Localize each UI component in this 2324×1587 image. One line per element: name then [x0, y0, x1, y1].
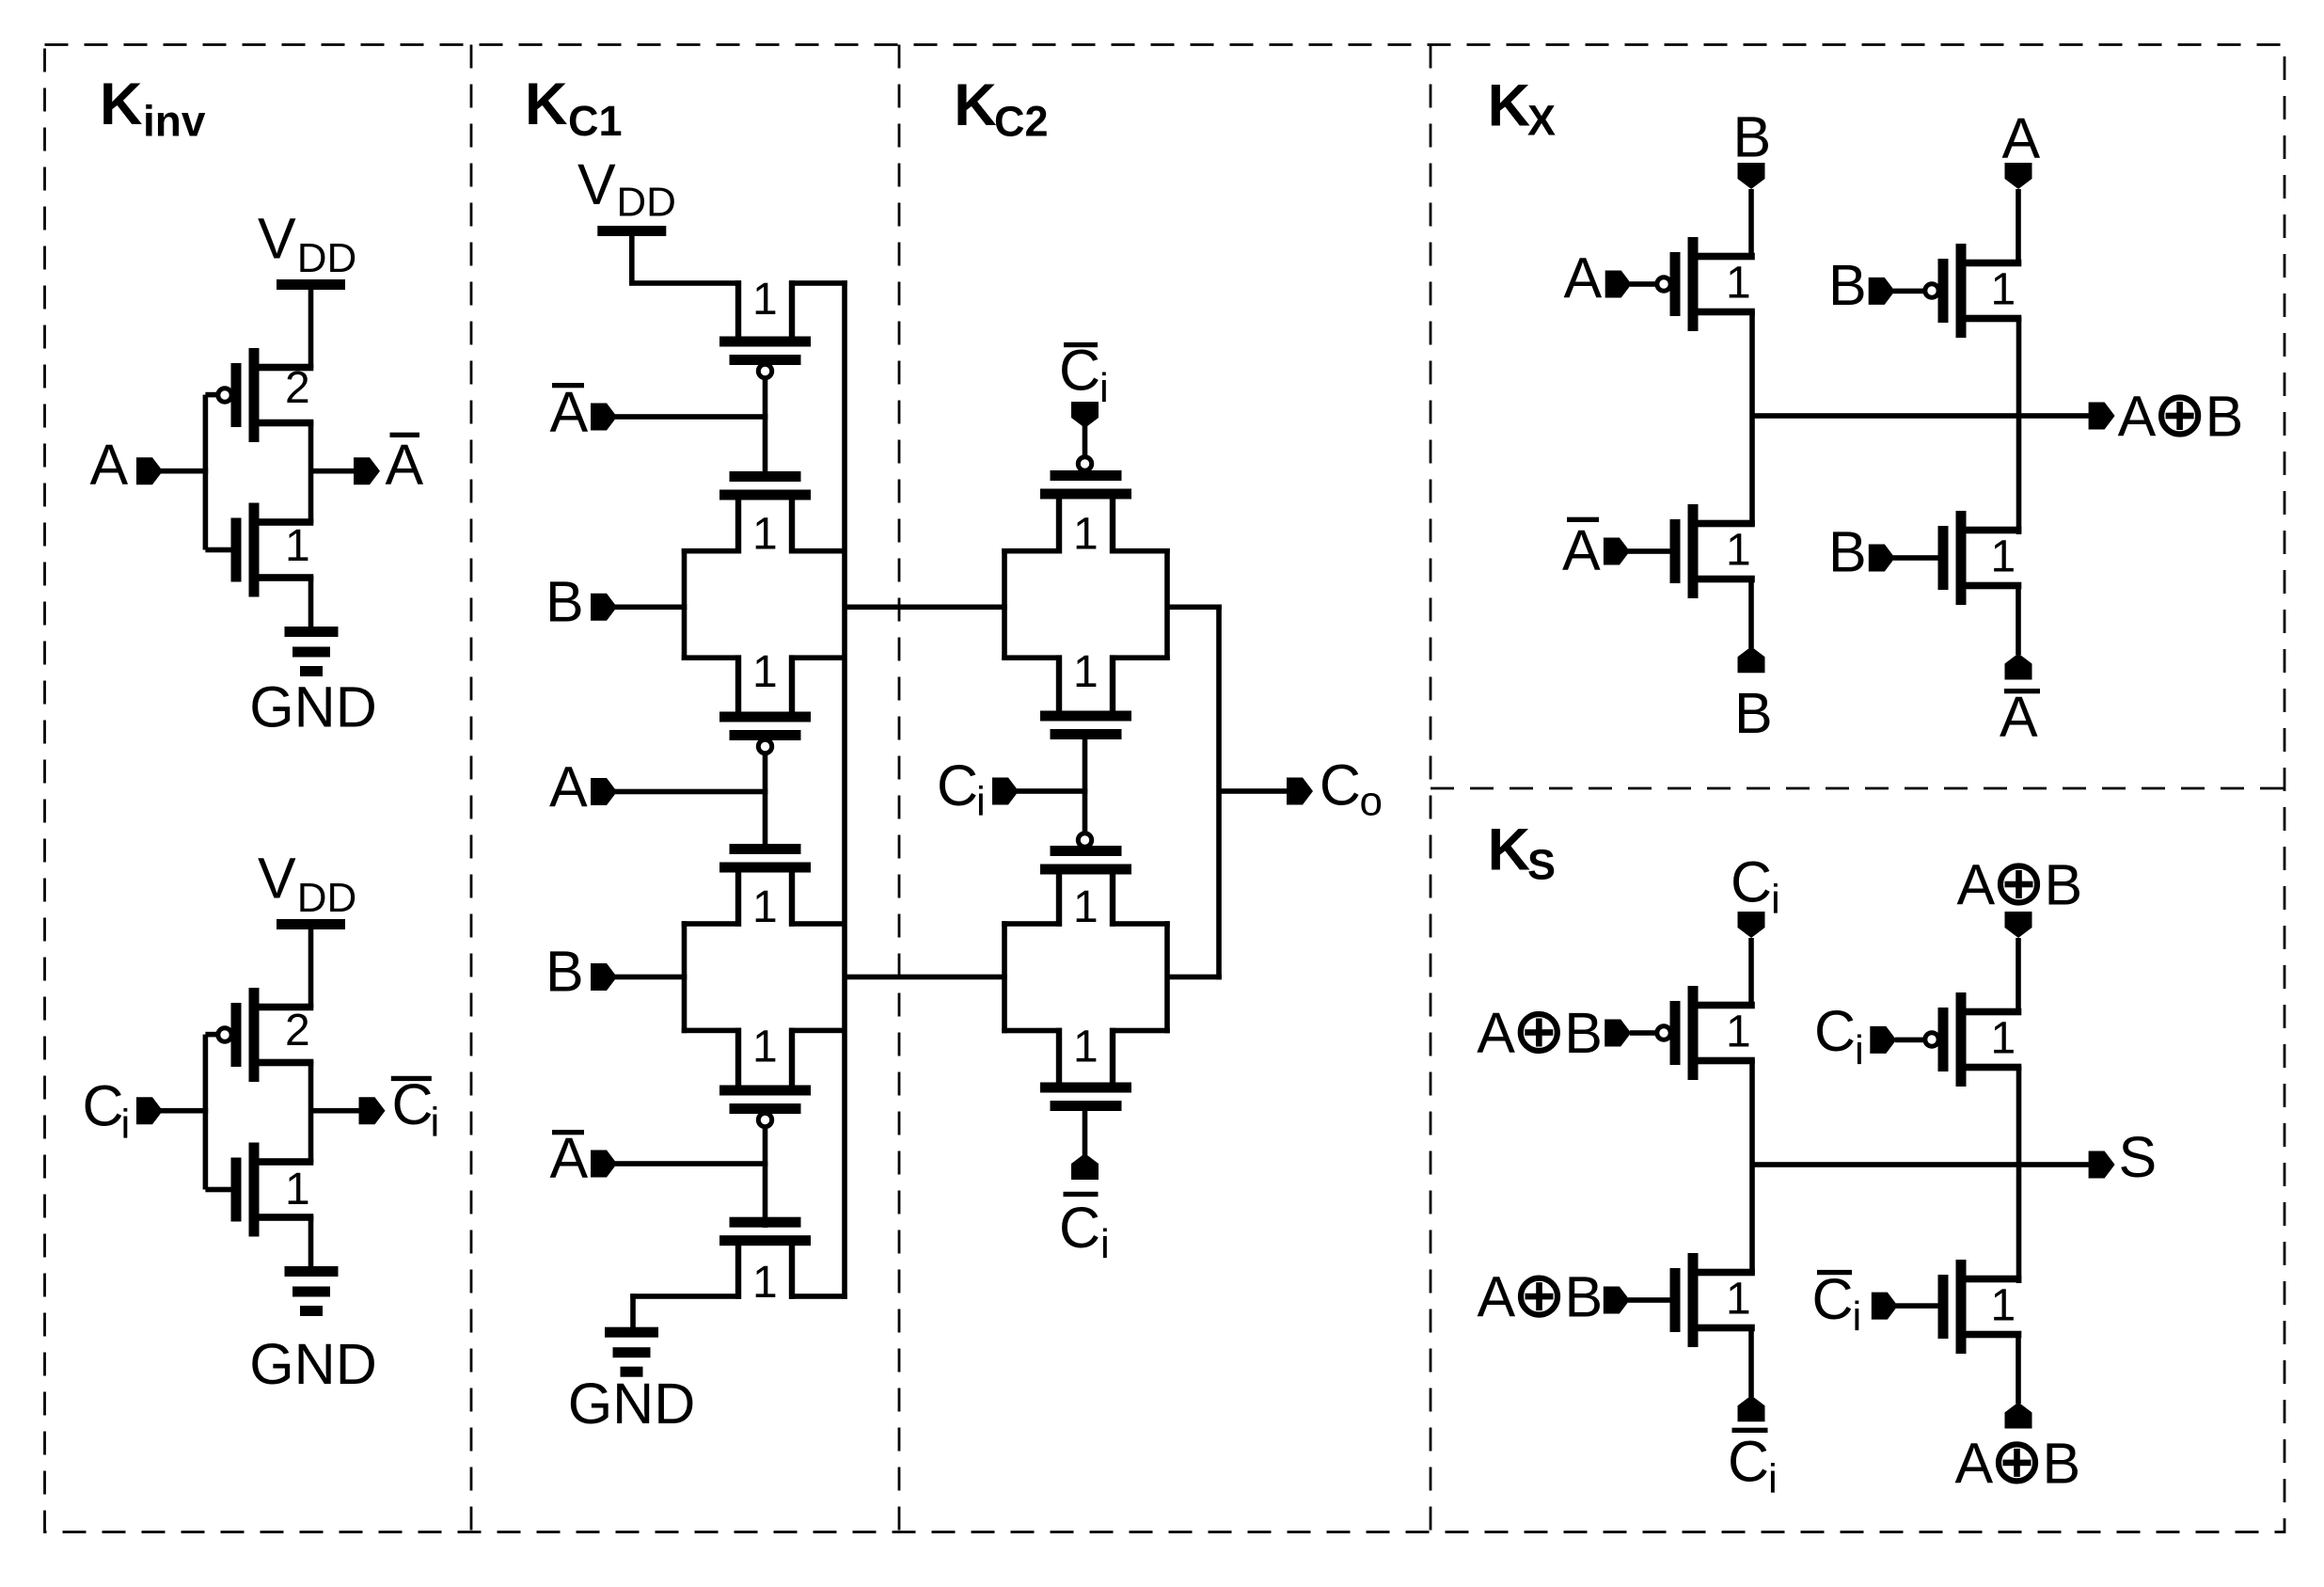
- svg-text:C: C: [1812, 1267, 1854, 1331]
- svg-text:B: B: [2045, 853, 2083, 917]
- svg-text:i: i: [1853, 1293, 1862, 1340]
- svg-text:1: 1: [285, 1165, 310, 1214]
- svg-text:A: A: [386, 433, 424, 497]
- wire rail to Co arrow: [1219, 788, 1288, 794]
- wire VDD rail to PMOS left lead: [629, 280, 741, 286]
- svg-text:V: V: [577, 152, 616, 216]
- wire gate Abar to bottom-left NMOS: [1628, 548, 1671, 554]
- wire pin to top PMOS gate bubble: [1083, 426, 1088, 458]
- label output Ci-bar: [391, 1072, 439, 1146]
- label 1 size (top-left): [1726, 1008, 1751, 1057]
- transistor 1 NMOS gate A (top of box 2): [719, 844, 811, 927]
- panel label K_S: [1488, 817, 1556, 889]
- svg-text:1: 1: [1073, 882, 1099, 932]
- label B (top-left pin): [1733, 105, 1772, 169]
- wire VDD to PMOS drain: [308, 928, 314, 1008]
- label 1 size (box1 bottom): [752, 647, 778, 697]
- svg-text:1: 1: [752, 510, 778, 560]
- svg-text:C: C: [937, 754, 978, 817]
- wire input B (lower) to box 2: [615, 975, 687, 980]
- wire gate A to top-left PMOS: [1630, 281, 1658, 287]
- label Ci-bar (bottom pin): [1059, 1192, 1110, 1267]
- wire top-left PMOS source down to output node: [1749, 1059, 1755, 1275]
- wire input to gate bus: [161, 1108, 208, 1114]
- svg-text:i: i: [1855, 1027, 1864, 1073]
- transistor 1 NMOS (bottom-right): [1938, 1260, 2022, 1354]
- svg-text:GND: GND: [568, 1372, 696, 1436]
- svg-text:K: K: [525, 71, 568, 137]
- svg-text:C: C: [1814, 999, 1856, 1063]
- wire input Abar to gate chain: [615, 414, 767, 420]
- svg-text:B: B: [545, 940, 584, 1004]
- pin arrow A-xor-B (top-right pin): [2005, 912, 2032, 938]
- label 1 size (bottom-right): [1991, 532, 2016, 582]
- wire gate AxorB to top-left PMOS: [1630, 1030, 1658, 1036]
- label 1 size (boxB top): [1073, 882, 1099, 932]
- wire top-right PMOS source down to bottom-right NMOS drain: [2016, 317, 2022, 534]
- svg-text:1: 1: [285, 521, 310, 571]
- label A xor B (top-left gate): [1477, 1001, 1603, 1065]
- wire input to gate bus: [161, 468, 208, 474]
- label 1 (NMOS size): [285, 521, 310, 571]
- svg-text:A: A: [1955, 1431, 1994, 1495]
- svg-text:A: A: [1477, 1001, 1515, 1065]
- panel label K_inv: [100, 71, 206, 146]
- pin arrow A (top-right pin): [2005, 163, 2032, 189]
- vertical rail of K_C1: [842, 280, 847, 1299]
- label A xor B (bottom-left gate): [1478, 1265, 1604, 1329]
- svg-text:K: K: [1488, 817, 1531, 883]
- svg-text:X: X: [1527, 96, 1556, 144]
- wire input Ci to gate chain: [1017, 788, 1087, 794]
- label 2 (PMOS size): [285, 363, 310, 413]
- svg-text:DD: DD: [297, 875, 357, 921]
- input arrow: [136, 1097, 163, 1124]
- pin arrow Ci-bar (top, pointing down): [1071, 402, 1099, 428]
- label Ci (top-left pin): [1731, 850, 1780, 923]
- label Co (carry output): [1320, 754, 1383, 825]
- wire PMOS source to output node: [308, 421, 314, 523]
- label 1 size of top PMOS: [752, 275, 778, 325]
- transistor 1 PMOS (top-right): [1925, 992, 2022, 1087]
- label 1 size (box1 top): [752, 510, 778, 560]
- panel label K_C2: [954, 72, 1048, 145]
- label 1 size (top-right): [1991, 265, 2016, 315]
- svg-text:i: i: [121, 1102, 131, 1148]
- svg-text:A: A: [1957, 853, 1996, 917]
- label 1 size (boxA bottom): [1073, 647, 1099, 697]
- label GND of K_C1: [568, 1372, 696, 1436]
- input arrow Ci (top-right gate): [1870, 1026, 1896, 1054]
- input arrow Ci: [992, 778, 1019, 805]
- pin arrow B (top-left pin): [1738, 163, 1765, 189]
- transistor 1 NMOS (bottom-left): [1670, 504, 1755, 598]
- label GND: [249, 1332, 377, 1396]
- input arrow B (upper): [591, 594, 617, 621]
- transistor 1 NMOS of inverter: [231, 503, 314, 597]
- svg-text:B: B: [1733, 105, 1772, 169]
- svg-text:i: i: [976, 779, 986, 825]
- transistor 1 PMOS (top-right): [1925, 244, 2022, 338]
- ground symbol GND of K_C1: [605, 1327, 658, 1377]
- svg-text:o: o: [1360, 779, 1383, 825]
- wire NMOS source to GND: [308, 1215, 314, 1266]
- transmission box 2 edges: [682, 921, 845, 1033]
- label Abar (bottom-right pin): [2000, 685, 2040, 749]
- wire bottom-left NMOS source to bottom pin: [1748, 576, 1754, 648]
- pin arrow A-xor-B (bottom-right pin, pointing up): [2005, 1403, 2032, 1429]
- svg-text:B: B: [2205, 385, 2244, 449]
- svg-text:C: C: [1728, 1429, 1769, 1493]
- svg-text:i: i: [431, 1100, 440, 1146]
- wire gate AxorB to bottom-left NMOS: [1628, 1297, 1671, 1303]
- svg-text:1: 1: [1991, 265, 2016, 315]
- input arrow Abar (upper): [591, 404, 617, 431]
- svg-text:1: 1: [752, 1258, 778, 1308]
- pin arrow Abar (bottom-right pin, pointing up): [2005, 654, 2032, 680]
- wire pin to top-left PMOS drain: [1748, 938, 1754, 1008]
- svg-text:1: 1: [752, 275, 778, 325]
- transistor 1 NMOS of inverter: [231, 1143, 314, 1237]
- svg-text:S: S: [2119, 1125, 2158, 1189]
- input arrow A (top-left gate): [1605, 271, 1632, 298]
- ground symbol GND: [285, 627, 339, 676]
- output node wire: [1752, 1162, 2089, 1167]
- input arrow A (middle): [591, 778, 617, 805]
- svg-text:inv: inv: [143, 97, 206, 146]
- wire bottom NMOS left lead to GND: [630, 1293, 741, 1328]
- panel divider between K_inv and K_C1: [470, 45, 473, 1532]
- transistor 1 PMOS (top-left): [1657, 237, 1755, 331]
- wire boxB NMOS gate down to bottom pin: [1083, 1108, 1088, 1155]
- wire bottom-right NMOS source to bottom pin: [2016, 1331, 2021, 1404]
- label 1 (NMOS size): [285, 1165, 310, 1214]
- transistor 1 NMOS gate Abar (bottom of K_C1): [719, 1217, 811, 1299]
- label Ci-bar (bottom-left pin): [1728, 1428, 1778, 1502]
- svg-text:1: 1: [1726, 259, 1751, 309]
- svg-text:1: 1: [1726, 526, 1751, 576]
- transistor 1 NMOS gate Ci (bottom of box A): [1040, 655, 1131, 739]
- output arrow: [2089, 1151, 2115, 1179]
- wire VDD to PMOS drain: [308, 288, 314, 368]
- transistor 1 PMOS (top-left): [1657, 986, 1755, 1080]
- wire box B output to rail: [1167, 975, 1222, 980]
- label A xor B (bottom-right pin): [1955, 1431, 2081, 1495]
- wire top-right PMOS source down to bottom-right NMOS drain: [2016, 1066, 2022, 1283]
- label 1 size (boxB bottom): [1073, 1022, 1099, 1071]
- svg-text:B: B: [1828, 520, 1867, 584]
- panel divider between K_C2 and K_X / K_S: [1430, 45, 1432, 1532]
- panel divider between K_C1 and K_C2: [898, 45, 901, 1532]
- svg-text:C: C: [83, 1074, 124, 1138]
- svg-text:A: A: [1562, 518, 1601, 582]
- svg-text:1: 1: [1726, 1275, 1751, 1325]
- input arrow B (top-right gate): [1869, 278, 1895, 305]
- label Abar (lower input): [550, 1126, 589, 1190]
- VDD supply symbol of K_C1: [577, 152, 676, 236]
- transistor 1 PMOS gate Abar (bottom of box 2): [719, 1028, 811, 1127]
- output arrow Co: [1287, 778, 1313, 805]
- svg-text:C: C: [392, 1072, 434, 1136]
- wire PMOS source to output node: [308, 1060, 314, 1163]
- wire gate B to bottom-right NMOS: [1893, 555, 1939, 561]
- output arrow: [359, 1097, 386, 1124]
- svg-text:C: C: [1059, 1196, 1100, 1260]
- wire gate chain boxA NMOS down to boxB PMOS: [1083, 737, 1088, 833]
- wire NMOS source to GND: [308, 576, 314, 627]
- output rail of K_C2: [1216, 605, 1222, 980]
- wire gate Ci-bar to bottom-right NMOS: [1896, 1303, 1939, 1309]
- input arrow A-xor-B (bottom-left gate): [1604, 1287, 1630, 1314]
- label Abar (bottom-left gate): [1562, 517, 1601, 582]
- svg-text:C: C: [1320, 754, 1361, 817]
- svg-text:V: V: [258, 846, 296, 910]
- transistor 1 PMOS gate Ci (top of box B): [1040, 833, 1131, 927]
- label input A: [90, 433, 129, 497]
- svg-text:C: C: [1059, 339, 1100, 403]
- svg-text:V: V: [258, 206, 296, 270]
- wire PMOS right lead to vertical rail: [789, 280, 847, 286]
- label 1 size (bottom-left): [1726, 1275, 1751, 1325]
- panel divider between K_X and K_S: [1431, 787, 2284, 790]
- label 1 size (bottom-right): [1991, 1281, 2016, 1331]
- wire top-left PMOS source down to output node: [1749, 310, 1755, 526]
- svg-text:1: 1: [1991, 1281, 2016, 1331]
- input arrow Abar (lower): [591, 1151, 617, 1178]
- wire output node to output arrow: [311, 468, 356, 474]
- transistor 1 NMOS gate Ci-bar (bottom of box B): [1040, 1028, 1131, 1111]
- transistor 1 NMOS (bottom-right): [1938, 511, 2022, 605]
- wire pin to top-left PMOS drain: [1748, 189, 1754, 260]
- svg-text:GND: GND: [249, 1332, 377, 1396]
- svg-text:A: A: [1564, 246, 1603, 310]
- wire VDD down to top rail: [629, 234, 635, 283]
- wire gate B to top-right PMOS: [1893, 289, 1924, 294]
- svg-text:2: 2: [285, 1006, 310, 1055]
- svg-text:1: 1: [1073, 510, 1099, 560]
- svg-text:i: i: [1768, 1456, 1778, 1502]
- transistor 1 NMOS gate Abar (top of box 1): [719, 471, 811, 554]
- label 1 size (boxA top): [1073, 510, 1099, 560]
- svg-text:A: A: [2000, 685, 2038, 749]
- label 2 (PMOS size): [285, 1006, 310, 1055]
- pin arrow Ci-bar (bottom, pointing up): [1071, 1153, 1099, 1180]
- svg-text:1: 1: [1073, 647, 1099, 697]
- wire input A to gate chain: [615, 789, 767, 795]
- label A (top-right pin): [2002, 106, 2041, 170]
- svg-text:K: K: [954, 72, 997, 138]
- ground symbol GND: [285, 1266, 339, 1316]
- svg-text:DD: DD: [297, 235, 357, 281]
- label output A-bar: [386, 433, 424, 497]
- label 1 size (top-right): [1991, 1014, 2016, 1064]
- svg-text:i: i: [1771, 877, 1780, 923]
- svg-text:K: K: [100, 71, 143, 137]
- svg-text:B: B: [1564, 1001, 1603, 1065]
- label B (top-right gate): [1828, 253, 1867, 317]
- transmission box B edges: [1002, 921, 1170, 1033]
- svg-text:K: K: [1488, 73, 1531, 139]
- wire pin to top-right PMOS drain: [2016, 189, 2021, 264]
- label 1 size of bottom NMOS: [752, 1258, 778, 1308]
- svg-text:A: A: [550, 380, 589, 444]
- input arrow: [136, 457, 163, 484]
- wire output node to output arrow: [311, 1108, 361, 1114]
- wire gate chain to box2 top NMOS: [763, 752, 768, 854]
- transistor 1 PMOS gate A (bottom of box 1): [719, 655, 811, 753]
- svg-text:A: A: [549, 755, 588, 819]
- input arrow B (bottom-right gate): [1869, 545, 1895, 572]
- svg-text:B: B: [1734, 681, 1773, 745]
- VDD supply symbol of inverter: [258, 846, 356, 929]
- input gate bus wire: [203, 1032, 232, 1192]
- transistor 2 PMOS of inverter: [218, 988, 313, 1082]
- panel label K_X: [1488, 73, 1556, 145]
- svg-text:B: B: [1565, 1265, 1604, 1329]
- svg-text:1: 1: [1991, 1014, 2016, 1064]
- svg-text:A: A: [2002, 106, 2041, 170]
- svg-text:1: 1: [752, 882, 778, 932]
- pin arrow Ci-bar (bottom-left pin, pointing up): [1738, 1395, 1765, 1421]
- wire gate chain PMOS to NMOS: [763, 376, 768, 479]
- svg-text:C2: C2: [994, 97, 1049, 145]
- svg-text:1: 1: [752, 647, 778, 697]
- label B (upper input): [545, 569, 584, 633]
- output arrow: [2089, 403, 2115, 430]
- wire gate chain to bottom NMOS: [763, 1125, 768, 1228]
- label 1 size (top-left): [1726, 259, 1751, 309]
- VDD supply symbol of inverter: [258, 206, 356, 290]
- svg-text:GND: GND: [249, 675, 377, 739]
- svg-text:i: i: [1099, 365, 1109, 411]
- label A (middle input): [549, 755, 588, 819]
- svg-text:i: i: [1100, 1221, 1110, 1267]
- input gate bus wire: [203, 392, 232, 553]
- svg-text:DD: DD: [616, 179, 676, 225]
- input arrow B (lower): [591, 963, 617, 991]
- label 1 size (box2 bottom): [752, 1022, 778, 1071]
- svg-text:A: A: [2118, 385, 2157, 449]
- svg-text:1: 1: [1073, 1022, 1099, 1071]
- svg-text:1: 1: [1726, 1008, 1751, 1057]
- label Ci (input): [937, 754, 986, 825]
- svg-text:1: 1: [1991, 532, 2016, 582]
- wire box 1 output to K_C2 box A: [845, 605, 1007, 611]
- label Ci-bar (top pin): [1059, 339, 1109, 411]
- svg-text:2: 2: [285, 363, 310, 413]
- wire bottom-left NMOS source to bottom pin: [1748, 1325, 1754, 1397]
- label A xor B (top-right pin): [1957, 853, 2083, 917]
- svg-text:C1: C1: [568, 97, 623, 145]
- label B (lower input): [545, 940, 584, 1004]
- pin arrow Ci (top-left pin): [1738, 912, 1765, 938]
- transistor 1 NMOS (bottom-left): [1670, 1253, 1755, 1347]
- wire bottom-right NMOS source to bottom pin: [2016, 582, 2021, 655]
- label 1 size (bottom-left): [1726, 526, 1751, 576]
- svg-text:B: B: [1828, 253, 1867, 317]
- label Ci (top-right gate): [1814, 999, 1864, 1073]
- svg-text:S: S: [1527, 840, 1556, 888]
- panel label K_C1: [525, 71, 623, 145]
- svg-text:A: A: [1478, 1265, 1516, 1329]
- output node wire: [1752, 413, 2089, 419]
- label S (sum output): [2119, 1125, 2158, 1189]
- pin arrow B (bottom-left pin, pointing up): [1738, 646, 1765, 673]
- transistor 2 PMOS of inverter: [218, 348, 313, 442]
- transmission box A edges: [1002, 548, 1170, 660]
- label GND: [249, 675, 377, 739]
- svg-text:A: A: [90, 433, 129, 497]
- svg-text:1: 1: [752, 1022, 778, 1071]
- label B (bottom-right gate): [1828, 520, 1867, 584]
- svg-text:B: B: [2043, 1431, 2081, 1495]
- wire pin to top-right PMOS drain: [2016, 938, 2021, 1013]
- label A (top-left gate): [1564, 246, 1603, 310]
- label Abar (upper input): [550, 380, 589, 444]
- input arrow A-xor-B (top-left gate): [1605, 1020, 1631, 1047]
- label B (bottom-left pin): [1734, 681, 1773, 745]
- label 1 size (box2 top): [752, 882, 778, 932]
- svg-text:A: A: [550, 1126, 589, 1190]
- input arrow Ci-bar (bottom-right gate): [1872, 1293, 1898, 1320]
- svg-text:B: B: [545, 569, 584, 633]
- wire box A output to rail: [1167, 605, 1222, 611]
- wire box 2 output to K_C2 box B: [845, 975, 1007, 980]
- label A xor B (output): [2118, 385, 2244, 449]
- wire gate Ci to top-right PMOS: [1895, 1038, 1924, 1043]
- wire input B (upper) to box 1: [615, 605, 687, 611]
- input arrow Abar (bottom-left gate): [1604, 538, 1630, 565]
- label input Ci: [83, 1074, 131, 1148]
- wire bottom NMOS right lead to rail: [789, 1293, 847, 1299]
- transistor 1 PMOS gate Abar (top of K_C1): [719, 280, 811, 377]
- transmission box 1 edges: [682, 548, 845, 660]
- label Ci-bar (bottom-right gate): [1812, 1267, 1862, 1340]
- wire input Abar (lower) to gate chain: [615, 1161, 767, 1166]
- svg-text:C: C: [1731, 850, 1772, 914]
- transistor 1 PMOS gate Ci-bar (top of box A): [1040, 457, 1131, 554]
- output arrow: [354, 457, 380, 484]
